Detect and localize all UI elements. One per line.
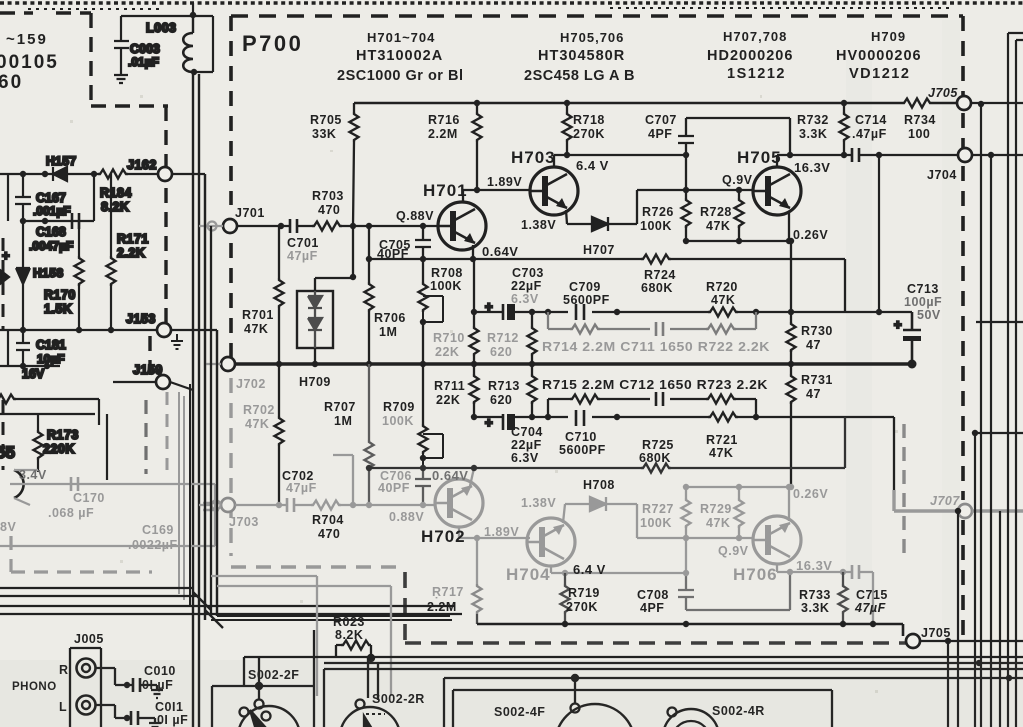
node netb5 <box>753 414 759 420</box>
wire H703 collector <box>554 155 688 168</box>
resistor stub bottom-left <box>0 395 16 404</box>
node f <box>20 327 26 333</box>
diode H708 <box>590 497 606 511</box>
gray wire C170 row <box>0 484 215 546</box>
node rail R719 <box>562 621 568 627</box>
node R728 top <box>736 187 742 193</box>
top supply rail <box>354 102 958 105</box>
resistor R712 <box>531 312 533 364</box>
wire varistor bottom <box>314 348 316 364</box>
resistor R721 <box>708 413 738 422</box>
wire C168 row <box>23 174 94 221</box>
wire 0.64V feedback row <box>369 259 845 312</box>
gray wire J703 entry <box>199 504 211 506</box>
node rail C715 <box>870 621 876 627</box>
capacitor C704 polarized <box>502 414 505 430</box>
wire H701 emitter <box>472 245 474 259</box>
node R730 top <box>788 238 794 244</box>
node C708 top <box>683 570 689 576</box>
node R709 bottom <box>420 455 426 461</box>
resistor R727 <box>685 487 687 573</box>
wire right y433 <box>975 432 1023 434</box>
terminal J153 <box>157 323 171 337</box>
node e4 <box>788 484 794 490</box>
resistor R732 <box>843 103 845 155</box>
contact c2 <box>255 700 264 709</box>
switch bus line 2 <box>324 662 1023 664</box>
node R708 bottom <box>420 319 426 325</box>
capacitor C702 <box>287 498 294 512</box>
node emitter H701 <box>470 256 476 262</box>
wire J153 row <box>0 329 157 331</box>
node 4F <box>571 674 579 682</box>
gray bus drops <box>211 576 391 696</box>
dashed border left (lower, faded) <box>144 400 147 474</box>
wire varistor low branch <box>333 455 353 505</box>
resistor R708 trimmer <box>422 259 424 282</box>
resistor R718 <box>566 103 568 155</box>
contact c4 <box>356 700 365 709</box>
wire left edge riser <box>7 174 9 366</box>
terminal J704 <box>958 148 972 162</box>
node L003 top <box>190 12 196 18</box>
capacitor C711 <box>656 322 663 336</box>
node v4 <box>976 660 982 666</box>
bottom supply rail <box>477 624 903 636</box>
node R023 <box>367 654 375 662</box>
resistor R723 <box>706 395 736 404</box>
resistor R726 <box>685 155 687 241</box>
node c <box>91 171 97 177</box>
wire H704 emitter to diode <box>563 504 590 523</box>
resistor R717 <box>476 538 478 584</box>
node g <box>76 327 82 333</box>
node R727 cross <box>683 535 689 541</box>
ground C010 <box>140 685 163 698</box>
terminal J705 bottom <box>906 634 920 648</box>
terminal J702 <box>221 357 235 371</box>
right vertical bundle <box>981 33 1016 727</box>
gray wire J702 entry <box>205 363 221 365</box>
wire contact drop <box>259 630 378 727</box>
node rail r708 <box>420 361 426 367</box>
node rail h709 <box>312 361 318 367</box>
node netb3 <box>545 414 551 420</box>
resistor R171 <box>110 174 112 330</box>
rotor S002-4R inner <box>672 721 710 727</box>
resistor R711 <box>473 364 475 417</box>
switch bus line 1 <box>244 656 1023 658</box>
capacitor C708 <box>678 572 790 610</box>
node R701 tap <box>278 223 284 229</box>
signal wire J701 to H701 <box>237 225 438 227</box>
capacitor C707 <box>678 118 790 155</box>
resistor R702 <box>278 364 280 505</box>
contact c3 <box>262 712 271 721</box>
node e3 <box>786 484 792 490</box>
resistor R730 <box>790 241 792 364</box>
resistor R722 <box>706 325 736 334</box>
node emitter H702 <box>471 465 477 471</box>
diode left edge blob <box>0 270 9 284</box>
gray dashed box bottom (faded channel) <box>231 565 405 568</box>
gray transistor lead <box>14 470 38 505</box>
wire 0.64V low feedback row <box>369 417 845 468</box>
sub row wire top <box>548 312 756 329</box>
wire jack R <box>96 668 133 685</box>
resistor R734 <box>902 99 932 108</box>
wire 0.26V low row <box>686 486 791 488</box>
capacitor C706 <box>415 468 431 505</box>
dashed border far-left edge <box>2 238 5 470</box>
resistor R731 <box>790 364 792 487</box>
node C706 bottom <box>420 502 426 508</box>
node contact 2F <box>255 682 263 690</box>
node R702 bottom <box>276 502 282 508</box>
node R728 bottom <box>736 238 742 244</box>
capacitor C167 <box>15 174 31 221</box>
node e <box>42 218 48 224</box>
wire J707 riser <box>894 490 957 511</box>
signal wire J703 to H702 <box>235 504 435 506</box>
capacitor C003 <box>114 16 129 70</box>
bus horizontals left <box>0 588 462 614</box>
node R732 bottom <box>841 152 847 158</box>
node v3 <box>972 430 978 436</box>
dashes inside 2R <box>366 713 385 715</box>
node jack L <box>124 715 130 721</box>
resistor R705 <box>353 103 354 226</box>
transistor H706 <box>753 516 801 564</box>
wire stub rows <box>0 399 107 480</box>
node d <box>20 218 26 224</box>
transistor H704 <box>527 518 575 566</box>
jack R outer <box>77 659 96 678</box>
ground below C003 <box>114 70 128 83</box>
switch bus line 4 <box>444 678 1023 727</box>
capacitor C712 <box>656 392 663 406</box>
contact c6 <box>668 708 677 717</box>
terminal J707 <box>958 504 972 518</box>
node R718 top <box>564 100 570 106</box>
node L003 bottom <box>191 69 197 75</box>
node varistor top <box>350 274 356 280</box>
wire feedback riser x474 <box>473 259 475 312</box>
riser x948 <box>948 511 958 727</box>
bus elbows <box>193 592 223 628</box>
inductor L003 <box>183 33 193 72</box>
capacitor C713 <box>903 312 921 364</box>
wire x871 riser <box>878 155 880 312</box>
resistor R710 <box>473 312 475 364</box>
wire H707 to H705 base <box>608 190 754 224</box>
jack L inner <box>82 701 90 709</box>
wire H703 emitter <box>566 210 592 224</box>
network bottom row wire <box>474 417 894 490</box>
node C705 tap <box>420 223 426 229</box>
capacitor C168 <box>72 213 79 229</box>
wire right y322 <box>976 321 1023 323</box>
jack L outer <box>77 696 96 715</box>
node rail C713 <box>908 360 917 369</box>
resistor R707 <box>368 364 370 505</box>
terminal J162 <box>158 167 172 181</box>
bus verticals mid <box>205 174 217 620</box>
capacitor C181 <box>16 330 30 366</box>
jack R inner <box>82 664 90 672</box>
wire J707 out <box>972 509 1023 512</box>
node v2 <box>988 152 994 158</box>
node jack R <box>124 682 130 688</box>
node rail r706 <box>366 361 372 367</box>
varistor diodes <box>308 291 322 348</box>
node R726 bottom <box>683 238 689 244</box>
resistor R729 <box>738 487 740 538</box>
capacitor C714 <box>852 148 859 162</box>
bus gray pair <box>179 392 184 600</box>
node net1 <box>471 309 477 315</box>
wire R708 to rail <box>422 322 424 364</box>
capacitor C705 <box>415 226 431 259</box>
node b <box>42 171 48 177</box>
wire drop 4F <box>574 678 576 704</box>
transistor H705 <box>753 167 801 215</box>
P700 dashed box: top border <box>231 14 963 18</box>
node H706 coll <box>787 569 793 575</box>
resistor R728 <box>738 190 740 241</box>
resistor R701 <box>278 226 280 364</box>
node R706 tap <box>366 223 372 229</box>
node e1 <box>683 484 689 490</box>
network top row wire <box>474 311 912 313</box>
wire top L003 feed <box>121 3 213 72</box>
resistor R725 <box>641 464 671 473</box>
node net4 <box>614 309 620 315</box>
resistor R733 <box>842 572 844 584</box>
resistor R715 <box>570 395 600 404</box>
wire H701 collector <box>463 190 530 203</box>
gray loop terminal near J701 <box>208 222 217 231</box>
node C707 bottom <box>683 152 689 158</box>
transistor H703 <box>530 167 578 215</box>
resistor R719 <box>564 573 566 584</box>
gray wire J701 entry <box>199 225 223 227</box>
node rail R733 <box>840 621 846 627</box>
wire J159 <box>113 382 193 390</box>
node a <box>20 171 26 177</box>
node R729 bottom <box>736 535 742 541</box>
rotor S002-2R <box>340 707 400 727</box>
node j <box>44 363 50 369</box>
vertical x975 <box>974 433 976 727</box>
node R707 bottom <box>366 502 372 508</box>
node i <box>20 363 26 369</box>
node net5 <box>753 309 759 315</box>
sub row wire bottom <box>548 399 756 417</box>
node e2 <box>736 484 742 490</box>
capacitor C169 <box>203 503 219 510</box>
capacitor C710 <box>576 410 584 426</box>
capacitor C709 <box>576 304 584 320</box>
node 0.64V left <box>366 256 372 262</box>
wire H702 emitter <box>470 468 474 486</box>
right bundle top stubs <box>1008 33 1023 40</box>
center rail <box>235 362 912 365</box>
node netb2 <box>529 414 535 420</box>
switch bus line 3 <box>324 668 1023 670</box>
node x791 cross <box>788 309 794 315</box>
phono box J005 <box>70 648 101 727</box>
node net6 <box>876 309 882 315</box>
dashed border of top-left block <box>0 13 168 380</box>
contact c5 <box>571 704 580 713</box>
wire J153 to bus <box>171 330 217 616</box>
gray dashed box right side (faded channel) <box>902 424 905 560</box>
node rail r710 <box>471 361 477 367</box>
resistor R720 <box>708 308 738 317</box>
node netb4 <box>614 414 620 420</box>
wire J704 out <box>972 154 1023 156</box>
node low left <box>366 465 372 471</box>
node base H704 <box>474 535 480 541</box>
wire J162 row <box>0 173 158 175</box>
wire H702 collector <box>459 527 530 538</box>
wire J705b out <box>920 640 1023 642</box>
rotor S002-4F <box>555 704 635 727</box>
resistor R714 <box>570 325 600 334</box>
switch box S002-2 left <box>212 657 313 727</box>
contact c1 <box>240 708 249 717</box>
node h <box>108 327 114 333</box>
node v1 <box>978 101 984 107</box>
wire 16V row <box>0 365 60 367</box>
node rail r701 <box>276 361 282 367</box>
wire second bus line <box>198 74 200 727</box>
P700 dashed box: right border <box>961 16 965 640</box>
resistor R709 trimmer <box>422 364 424 424</box>
ground J153 <box>171 334 183 349</box>
diode H707 <box>592 217 608 231</box>
node netb1 <box>471 414 477 420</box>
capacitor C011 <box>131 711 138 725</box>
diode H158 <box>16 221 30 330</box>
dashed gray x167 <box>166 392 169 470</box>
node net3 <box>545 309 551 315</box>
node rail r712 <box>529 361 535 367</box>
node rail C708 <box>683 621 689 627</box>
node R716 top <box>474 100 480 106</box>
node v7 <box>955 508 961 514</box>
top dotted page border <box>0 1 1023 5</box>
resistor R713 <box>531 364 533 417</box>
node C705 bottom <box>420 256 426 262</box>
node R726 base cross <box>683 187 689 193</box>
terminal J701 <box>223 219 237 233</box>
node C713 riser top <box>876 152 882 158</box>
resistor R706 <box>368 226 370 364</box>
switch box S002-4 <box>453 690 832 727</box>
bus horizontal lower <box>211 616 452 620</box>
wiper 2F <box>250 710 266 727</box>
capacitor C715 <box>852 565 859 579</box>
capacitor C701 <box>290 219 297 233</box>
diode H157 <box>53 167 67 181</box>
rotor S002-2F <box>238 706 300 727</box>
wire H706 collector 16.3V <box>777 563 873 624</box>
node R733 top <box>840 569 846 575</box>
node R732 top <box>841 100 847 106</box>
terminal J703 <box>221 498 235 512</box>
node C706 tap low <box>420 465 426 471</box>
wire H706 emitter <box>788 487 790 521</box>
capacitor C170 <box>71 477 78 491</box>
terminal J705 <box>957 96 971 110</box>
capacitor C010 <box>133 678 140 692</box>
resistor R704 <box>311 501 341 510</box>
node v5 <box>1006 675 1012 681</box>
node x353 low <box>350 502 356 508</box>
bus line x190 <box>189 384 191 606</box>
varistor H709 box <box>297 291 333 348</box>
node base H703 <box>474 187 480 193</box>
transistor H701 <box>438 202 486 250</box>
capacitor C703 polarized <box>502 304 505 320</box>
resistor R703 <box>312 222 342 231</box>
black dashed bottom border of P700 <box>405 572 906 643</box>
node x353 <box>350 223 356 229</box>
wire jack L <box>96 705 131 718</box>
node R718 bottom <box>564 152 570 158</box>
terminal J159 <box>156 375 170 389</box>
resistor R023 <box>341 641 371 650</box>
resistor R724 <box>641 255 671 264</box>
wire J162 to bus <box>172 174 205 620</box>
wire H705 collector 16.3V <box>777 155 958 168</box>
node H705 coll <box>787 152 793 158</box>
resistor R184 <box>98 170 128 179</box>
node emitter <box>786 238 792 244</box>
node J705b <box>945 638 951 644</box>
gray loop terminal near J703 <box>212 501 221 510</box>
P700 dashed box: left border <box>229 16 233 365</box>
resistor R716 <box>476 103 478 190</box>
wire H708 to H706 base <box>606 504 754 538</box>
wiper 2R <box>364 716 374 727</box>
ground C011 <box>138 718 161 727</box>
resistor R173 <box>37 414 39 472</box>
wire H704 collector <box>551 565 686 573</box>
resistor R170 <box>78 221 80 330</box>
transistor H702 <box>435 479 483 527</box>
wire H705 emitter 0.26V <box>686 213 791 241</box>
wire varistor branch <box>315 226 353 291</box>
transistor arc 55 <box>14 470 24 498</box>
node net2 <box>529 309 535 315</box>
rotor S002-4R outer <box>663 709 719 727</box>
node rail r730 <box>788 361 794 367</box>
wire J705 out <box>970 102 1023 104</box>
node R719 top <box>562 570 568 576</box>
